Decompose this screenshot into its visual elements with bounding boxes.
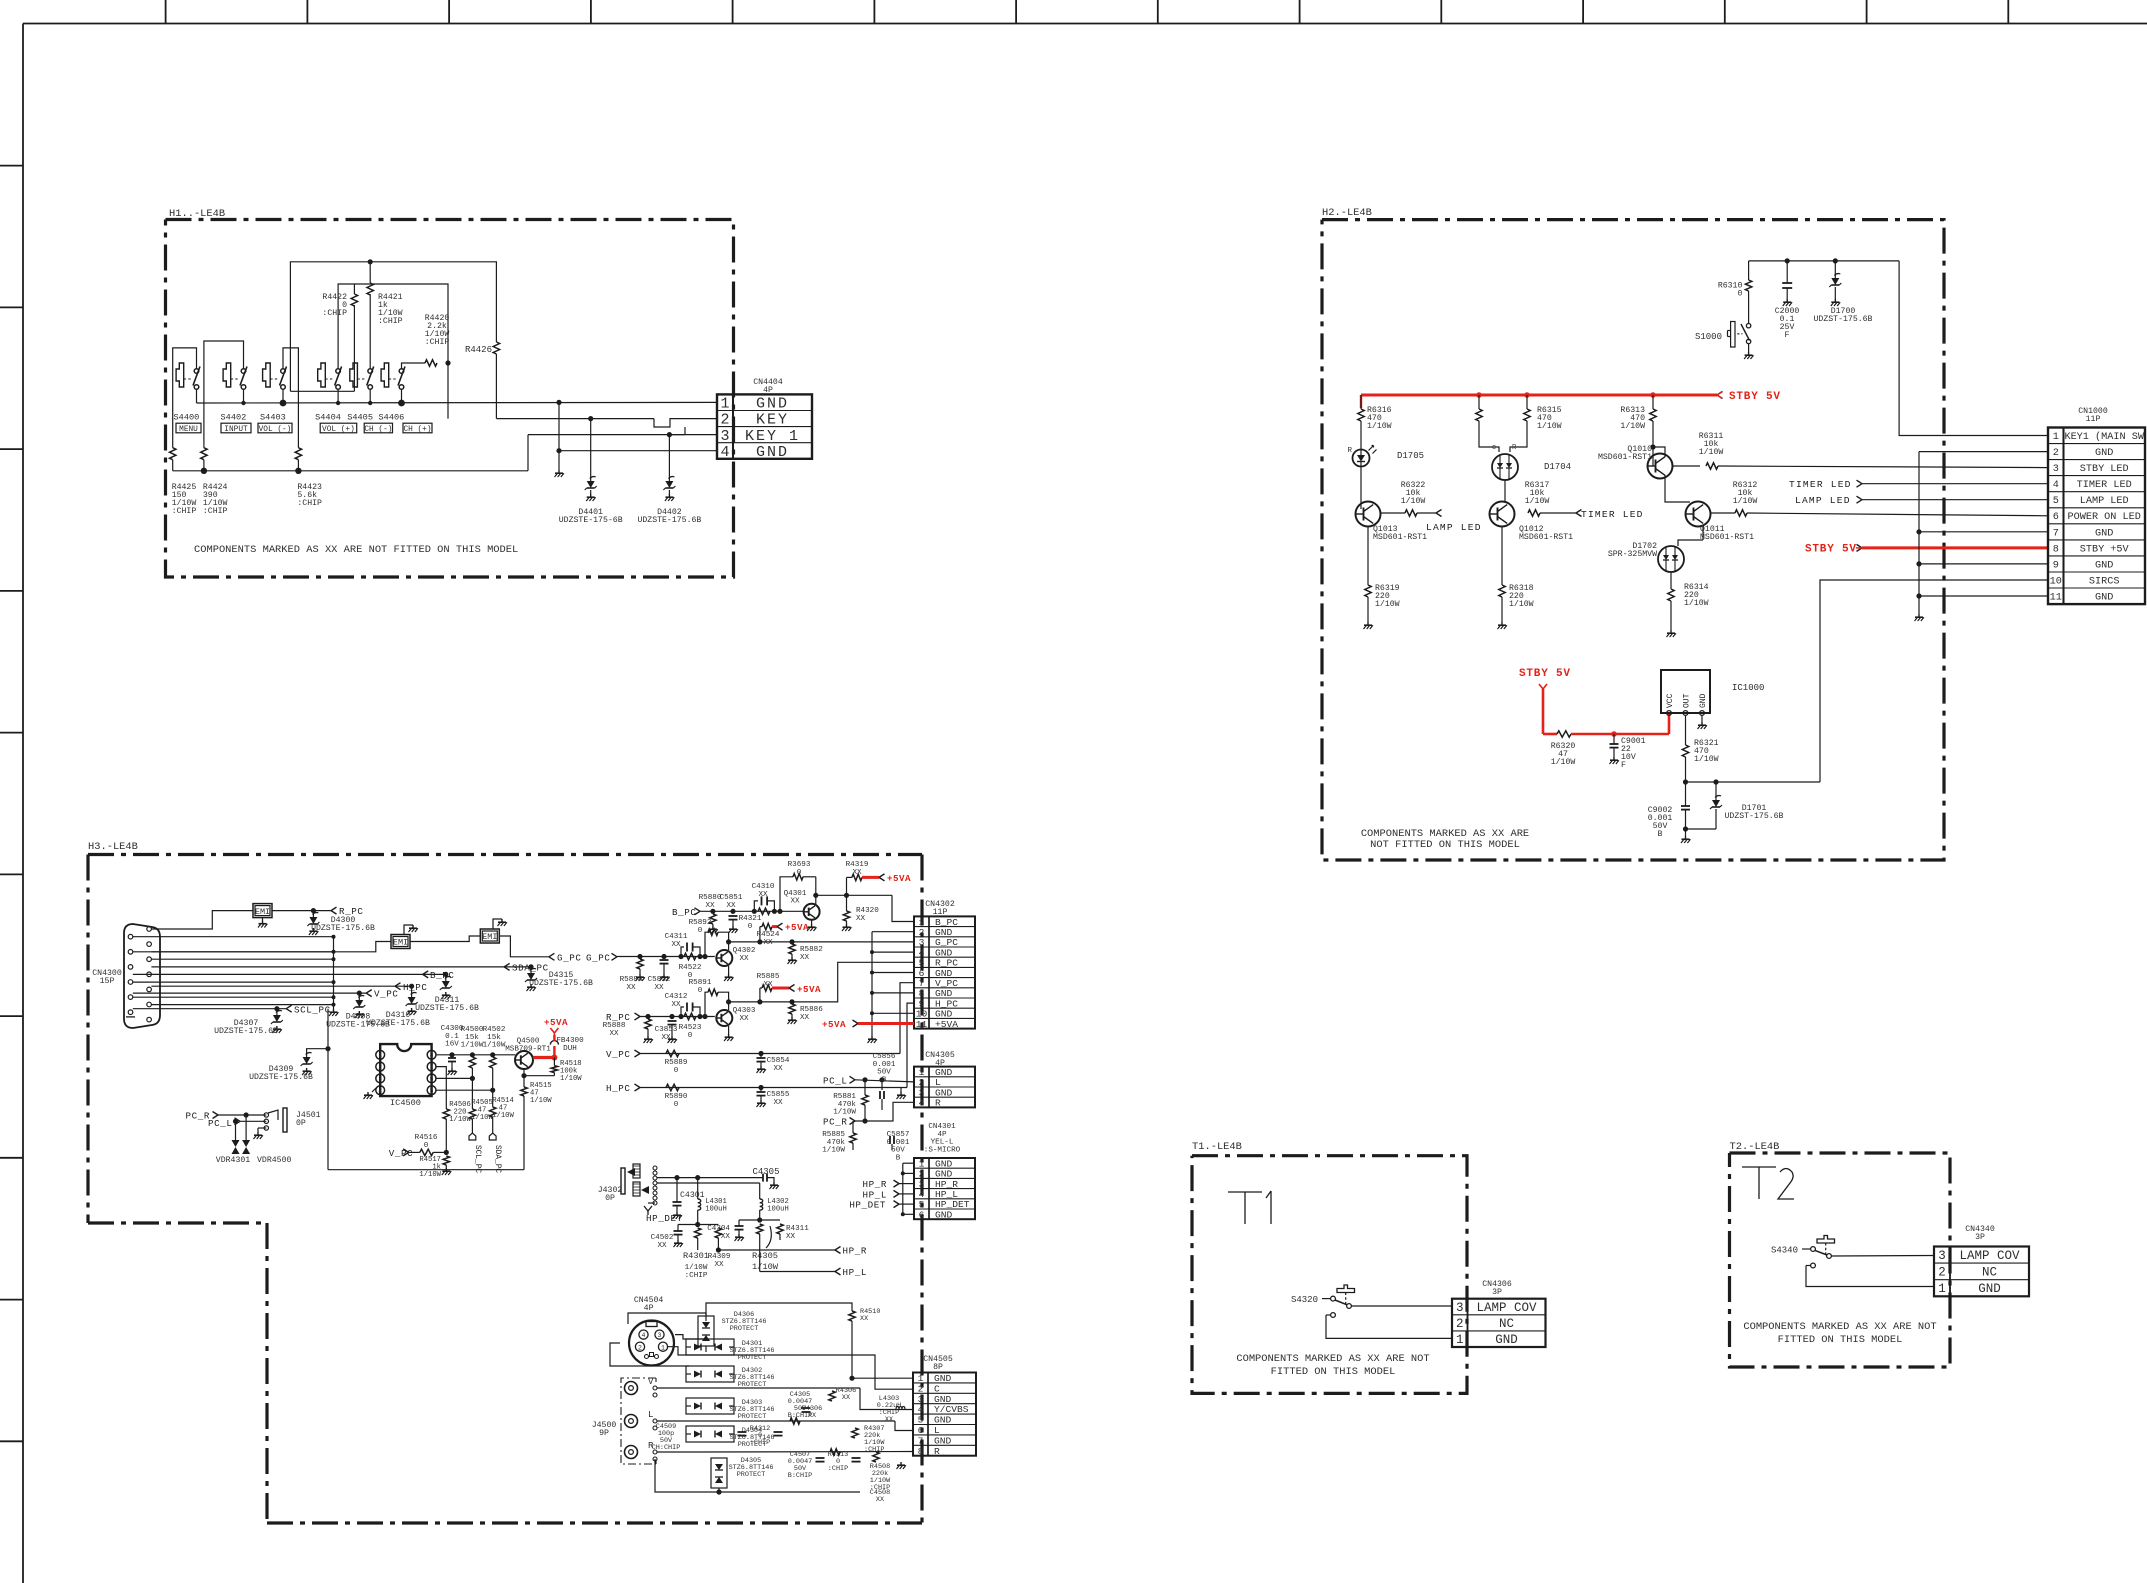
svg-text:R4426: R4426	[465, 345, 492, 355]
svg-text:15k: 15k	[487, 1034, 501, 1042]
svg-text:1/10W: 1/10W	[560, 1075, 582, 1083]
svg-text:B: B	[896, 1154, 901, 1162]
svg-text:3P: 3P	[1975, 1233, 1985, 1242]
svg-text:GND: GND	[756, 396, 789, 413]
svg-text:XX: XX	[786, 1233, 796, 1241]
svg-text:TIMER LED: TIMER LED	[1581, 509, 1644, 520]
svg-text:XX: XX	[739, 1015, 749, 1023]
svg-text:GND: GND	[2095, 528, 2113, 539]
svg-text:UDZSTE-175.6B: UDZSTE-175.6B	[326, 1021, 390, 1030]
svg-text:1/10W: 1/10W	[471, 1114, 493, 1122]
svg-text:B: B	[1658, 830, 1663, 839]
svg-text:XX: XX	[790, 898, 800, 906]
svg-text:L: L	[934, 1425, 940, 1436]
svg-text:LAMP LED: LAMP LED	[2080, 496, 2129, 507]
svg-text:V: V	[648, 1377, 654, 1387]
svg-text:S4400: S4400	[174, 413, 200, 423]
svg-text:1/10W: 1/10W	[1684, 598, 1709, 608]
svg-text:GND: GND	[934, 1435, 952, 1446]
svg-text:Q4302: Q4302	[733, 947, 756, 955]
svg-text:XX: XX	[726, 902, 736, 910]
svg-text:GND: GND	[934, 1415, 952, 1426]
svg-text:100uH: 100uH	[767, 1205, 789, 1213]
svg-text:CH:CHIP: CH:CHIP	[652, 1444, 681, 1452]
svg-text:KEY1 (MAIN SW: KEY1 (MAIN SW	[2064, 431, 2144, 443]
svg-text:R4524: R4524	[757, 931, 780, 939]
svg-text:VOL (+): VOL (+)	[322, 426, 355, 434]
svg-text:4: 4	[720, 444, 729, 461]
svg-text:PROTECT: PROTECT	[738, 1413, 767, 1421]
svg-text:R4309: R4309	[708, 1253, 731, 1261]
svg-text:1/10W: 1/10W	[492, 1112, 514, 1120]
svg-text:1/10W: 1/10W	[419, 1171, 441, 1179]
svg-text:R5890: R5890	[665, 1093, 688, 1101]
svg-text:UDZSTE-175.6B: UDZSTE-175.6B	[214, 1027, 278, 1036]
svg-text:FB4300: FB4300	[556, 1037, 584, 1045]
svg-text:L: L	[648, 1410, 653, 1420]
svg-text:C4310: C4310	[752, 883, 775, 891]
svg-text:VOL (-): VOL (-)	[259, 426, 292, 434]
svg-text:R5889: R5889	[665, 1059, 688, 1067]
svg-text:H2.-LE4B: H2.-LE4B	[1322, 207, 1372, 219]
svg-text:R5886: R5886	[800, 1006, 823, 1014]
svg-text:PC_R: PC_R	[823, 1117, 847, 1128]
svg-text::CHIP: :CHIP	[685, 1272, 708, 1280]
svg-text:1/10W: 1/10W	[833, 1109, 856, 1117]
svg-text:C4311: C4311	[665, 933, 688, 941]
svg-text:XX: XX	[800, 954, 810, 962]
svg-text:R4305: R4305	[752, 1251, 778, 1261]
svg-text:T2.-LE4B: T2.-LE4B	[1730, 1141, 1780, 1153]
svg-text:XX: XX	[654, 984, 664, 992]
svg-text:MSD601-RST1: MSD601-RST1	[1598, 453, 1652, 462]
svg-text::CHIP: :CHIP	[864, 1446, 884, 1454]
svg-text:S4402: S4402	[221, 413, 247, 423]
svg-text:XX: XX	[876, 1496, 884, 1504]
svg-text:GND: GND	[934, 1394, 952, 1405]
svg-text:S1000: S1000	[1695, 332, 1722, 342]
svg-text:UDZSTE-175.6B: UDZSTE-175.6B	[415, 1004, 479, 1013]
svg-text:COMPONENTS MARKED AS XX ARE NO: COMPONENTS MARKED AS XX ARE NOT	[1743, 1321, 1936, 1333]
svg-text:VDR4301: VDR4301	[216, 1156, 250, 1165]
svg-text:4P: 4P	[644, 1304, 654, 1313]
svg-text:S4406: S4406	[379, 413, 405, 423]
svg-text:3: 3	[1938, 1249, 1946, 1263]
svg-text:6: 6	[918, 1425, 924, 1436]
svg-text:B_PC: B_PC	[430, 970, 454, 981]
svg-text:XX: XX	[773, 1099, 783, 1107]
svg-text:3: 3	[918, 1394, 924, 1405]
svg-text:XX: XX	[671, 1001, 681, 1009]
svg-text:5: 5	[2053, 496, 2059, 507]
svg-text:R5888: R5888	[603, 1022, 626, 1030]
svg-text:STBY 5V: STBY 5V	[1729, 391, 1781, 403]
svg-text:H3.-LE4B: H3.-LE4B	[88, 841, 138, 853]
svg-text:R5885: R5885	[822, 1131, 845, 1139]
svg-text:C4305: C4305	[752, 1167, 779, 1177]
svg-text:S4405: S4405	[347, 413, 373, 423]
svg-text:15P: 15P	[100, 977, 115, 986]
svg-text:2: 2	[378, 1064, 382, 1071]
svg-text:C: C	[934, 1383, 940, 1394]
svg-text:+5VA: +5VA	[935, 1019, 958, 1030]
svg-text:B:CHIP: B:CHIP	[788, 1472, 812, 1480]
svg-text:7: 7	[918, 1435, 924, 1446]
svg-text:R3693: R3693	[788, 861, 811, 869]
svg-text::S-MICRO: :S-MICRO	[924, 1146, 961, 1154]
svg-text:LAMP COV: LAMP COV	[1959, 1249, 2020, 1263]
svg-text:+5VA: +5VA	[887, 873, 911, 884]
svg-text:XX: XX	[714, 1261, 724, 1269]
svg-text:PROTECT: PROTECT	[730, 1325, 759, 1333]
svg-text:1: 1	[378, 1052, 382, 1059]
svg-text::CHIP: :CHIP	[172, 507, 197, 516]
svg-text:XX: XX	[739, 955, 749, 963]
svg-text:2: 2	[638, 1344, 642, 1351]
svg-text:R5880: R5880	[699, 894, 722, 902]
svg-text:1: 1	[1456, 1333, 1464, 1347]
svg-text:G_PC: G_PC	[586, 952, 610, 963]
svg-text:XX: XX	[842, 1394, 850, 1402]
svg-text:8: 8	[918, 1446, 924, 1457]
svg-text:GND: GND	[2095, 448, 2113, 459]
svg-text:3P: 3P	[1492, 1288, 1502, 1297]
svg-text:F: F	[1785, 331, 1790, 340]
svg-text:NC: NC	[1499, 1317, 1514, 1331]
svg-text:GND: GND	[1699, 693, 1708, 708]
svg-text:1/10W: 1/10W	[461, 1042, 484, 1050]
svg-text:1: 1	[661, 1344, 665, 1351]
svg-text::CHIP: :CHIP	[322, 309, 347, 318]
svg-text:CH (-): CH (-)	[364, 426, 392, 434]
svg-text:MENU: MENU	[179, 426, 198, 434]
svg-text:XX: XX	[626, 984, 636, 992]
svg-text:LAMP LED: LAMP LED	[1426, 522, 1482, 533]
svg-text:8: 8	[2053, 544, 2059, 555]
svg-text:XX: XX	[763, 981, 773, 989]
svg-text:0.001: 0.001	[887, 1139, 910, 1147]
svg-text:R4502: R4502	[483, 1026, 506, 1034]
svg-text::CHIP: :CHIP	[828, 1465, 848, 1473]
svg-text:V_PC: V_PC	[606, 1049, 630, 1060]
svg-text:C5855: C5855	[767, 1091, 790, 1099]
svg-text:0.001: 0.001	[873, 1061, 896, 1069]
svg-text:470k: 470k	[827, 1139, 846, 1147]
svg-text:STBY LED: STBY LED	[2080, 464, 2129, 475]
svg-text:COMPONENTS MARKED AS XX ARE NO: COMPONENTS MARKED AS XX ARE NOT	[1236, 1353, 1429, 1365]
svg-text:POWER ON LED: POWER ON LED	[2068, 512, 2141, 523]
svg-text::CHIP: :CHIP	[425, 338, 450, 347]
svg-text:SPR-325MVW: SPR-325MVW	[1608, 550, 1657, 559]
svg-text:R4319: R4319	[846, 861, 869, 869]
svg-text:EMI: EMI	[482, 932, 497, 942]
svg-text:XX: XX	[609, 1030, 619, 1038]
svg-text:D1705: D1705	[1397, 451, 1424, 461]
svg-text:XX: XX	[705, 902, 715, 910]
svg-text:D1704: D1704	[1544, 462, 1571, 472]
svg-text:COMPONENTS MARKED AS XX ARE NO: COMPONENTS MARKED AS XX ARE NOT FITTED O…	[194, 544, 518, 556]
svg-text:C5854: C5854	[767, 1057, 790, 1065]
svg-text:R4516: R4516	[415, 1134, 438, 1142]
svg-text:INPUT: INPUT	[224, 426, 248, 434]
svg-text:1/10W: 1/10W	[1537, 421, 1562, 431]
svg-text:1: 1	[918, 1373, 924, 1384]
svg-text:XX: XX	[758, 891, 768, 899]
svg-text:1: 1	[1938, 1282, 1946, 1296]
svg-text:C4304: C4304	[707, 1225, 730, 1233]
svg-text:UDZST-175.6B: UDZST-175.6B	[1814, 315, 1873, 324]
svg-text:50V: 50V	[891, 1147, 905, 1155]
svg-text:4P: 4P	[937, 1131, 947, 1139]
svg-text:SCL_PC: SCL_PC	[294, 1004, 331, 1015]
svg-text:R5891: R5891	[689, 979, 712, 987]
svg-text:R4522: R4522	[679, 964, 702, 972]
svg-text:UDZSTE-175.6B: UDZSTE-175.6B	[311, 924, 375, 933]
svg-text:R4320: R4320	[856, 907, 879, 915]
svg-text:1/10W: 1/10W	[1733, 496, 1758, 506]
svg-text:50V: 50V	[877, 1069, 891, 1077]
svg-text:GND: GND	[2095, 593, 2113, 604]
svg-text:G_PC: G_PC	[557, 952, 581, 963]
svg-text:+5VA: +5VA	[785, 922, 809, 933]
svg-text:8: 8	[430, 1052, 434, 1059]
svg-text:1: 1	[720, 396, 729, 413]
svg-text:9P: 9P	[599, 1429, 609, 1438]
svg-text:11P: 11P	[2086, 415, 2101, 424]
svg-text:1/10W: 1/10W	[1525, 496, 1550, 506]
svg-text:EMI: EMI	[255, 907, 270, 917]
svg-text:V_PC: V_PC	[389, 1148, 413, 1159]
svg-text:+5VA: +5VA	[797, 984, 821, 995]
svg-text:C4312: C4312	[665, 993, 688, 1001]
svg-text:0: 0	[688, 1032, 693, 1040]
svg-text:STBY 5V: STBY 5V	[1805, 544, 1857, 556]
svg-text:1/10W: 1/10W	[1694, 754, 1719, 764]
svg-text:R4321: R4321	[739, 915, 762, 923]
svg-text:3: 3	[1456, 1301, 1464, 1315]
svg-text:0: 0	[674, 1101, 679, 1109]
svg-text:3: 3	[720, 428, 729, 445]
svg-text::CHIP: :CHIP	[378, 317, 403, 326]
svg-text:PC_L: PC_L	[823, 1075, 847, 1086]
svg-text:0: 0	[1737, 290, 1742, 299]
svg-text:CN4301: CN4301	[928, 1123, 956, 1131]
svg-text:TIMER LED: TIMER LED	[1789, 479, 1852, 490]
svg-text:4: 4	[378, 1087, 382, 1094]
svg-text:KEY 1: KEY 1	[745, 428, 800, 445]
svg-text:Y/CVBS: Y/CVBS	[934, 1404, 969, 1415]
svg-text:GND: GND	[1978, 1282, 2001, 1296]
svg-text:1/10W: 1/10W	[1509, 599, 1534, 609]
svg-text:STBY +5V: STBY +5V	[2080, 544, 2130, 555]
svg-text:0: 0	[674, 1067, 679, 1075]
svg-text:1/10W: 1/10W	[483, 1042, 506, 1050]
svg-text:NOT FITTED ON THIS MODEL: NOT FITTED ON THIS MODEL	[1370, 839, 1520, 851]
svg-text:2: 2	[720, 412, 729, 429]
svg-text:OUT: OUT	[1683, 693, 1692, 708]
svg-text:R: R	[935, 1098, 941, 1109]
svg-text:XX: XX	[852, 869, 862, 877]
svg-text:XX: XX	[860, 1315, 868, 1323]
svg-text:XX: XX	[763, 939, 773, 947]
svg-text:0P: 0P	[296, 1119, 306, 1128]
svg-text:0: 0	[698, 927, 703, 935]
svg-text:XX: XX	[800, 1014, 810, 1022]
svg-text:MSD601-RST1: MSD601-RST1	[1519, 533, 1573, 542]
svg-text:R: R	[1347, 447, 1352, 455]
svg-text:TIMER LED: TIMER LED	[2077, 480, 2132, 491]
svg-text:R: R	[934, 1446, 940, 1457]
svg-text:HP_L: HP_L	[843, 1267, 867, 1278]
svg-text:MSB709-RT1: MSB709-RT1	[505, 1045, 551, 1053]
svg-text:11: 11	[2050, 593, 2062, 604]
svg-text:0: 0	[748, 923, 753, 931]
svg-text:GND: GND	[935, 1209, 953, 1220]
svg-text:1/10W: 1/10W	[752, 1262, 779, 1272]
svg-text:C5857: C5857	[887, 1131, 910, 1139]
svg-text:4: 4	[2053, 480, 2059, 491]
svg-text:0.1: 0.1	[445, 1033, 459, 1041]
svg-text:XX: XX	[671, 941, 681, 949]
svg-text:MSD601-RST1: MSD601-RST1	[1373, 533, 1427, 542]
svg-text:3: 3	[378, 1076, 382, 1083]
svg-text:H_PC: H_PC	[606, 1083, 630, 1094]
svg-text:MSD601-RST1: MSD601-RST1	[1700, 533, 1754, 542]
svg-text:XX: XX	[657, 1242, 667, 1250]
svg-text:LAMP COV: LAMP COV	[1476, 1301, 1537, 1315]
svg-text:GND: GND	[1495, 1333, 1518, 1347]
svg-text:0: 0	[797, 869, 802, 877]
svg-text:S4320: S4320	[1291, 1295, 1318, 1305]
svg-text:LAMP LED: LAMP LED	[1795, 495, 1851, 506]
svg-text:PC_R: PC_R	[186, 1111, 210, 1122]
svg-text:6: 6	[430, 1076, 434, 1083]
svg-text:XX: XX	[885, 1416, 893, 1424]
svg-text:16V: 16V	[445, 1041, 459, 1049]
svg-text:C5851: C5851	[720, 894, 743, 902]
svg-text:2: 2	[918, 1383, 924, 1394]
svg-text:9: 9	[2053, 560, 2059, 571]
svg-text:GND: GND	[934, 1373, 952, 1384]
svg-text:0P: 0P	[605, 1194, 615, 1203]
svg-text:R5892: R5892	[689, 919, 712, 927]
svg-text:1/10W: 1/10W	[685, 1264, 708, 1272]
svg-text:6: 6	[2053, 512, 2059, 523]
svg-text:C5856: C5856	[873, 1053, 896, 1061]
svg-text:VCC: VCC	[1666, 693, 1675, 708]
svg-text:XX: XX	[773, 1065, 783, 1073]
svg-text:6: 6	[919, 1209, 925, 1220]
svg-text:1: 1	[2053, 432, 2059, 443]
svg-text:1/10W: 1/10W	[530, 1097, 552, 1105]
svg-text:5: 5	[430, 1087, 434, 1094]
svg-text:XX: XX	[721, 1233, 731, 1241]
svg-text:S4403: S4403	[260, 413, 286, 423]
svg-text:2: 2	[1456, 1317, 1464, 1331]
svg-text:1/10W: 1/10W	[1620, 421, 1645, 431]
svg-text:UDZSTE-175-6B: UDZSTE-175-6B	[559, 516, 623, 525]
svg-text:4: 4	[918, 1404, 924, 1415]
svg-text:2: 2	[2053, 448, 2059, 459]
svg-text:10: 10	[2050, 576, 2062, 587]
svg-text:1/10W: 1/10W	[1699, 447, 1724, 457]
svg-text:R4311: R4311	[786, 1225, 809, 1233]
svg-text:STBY 5V: STBY 5V	[1519, 668, 1571, 680]
svg-text:1/10W: 1/10W	[1401, 496, 1426, 506]
svg-text:R4523: R4523	[679, 1024, 702, 1032]
svg-text:FITTED ON THIS MODEL: FITTED ON THIS MODEL	[1778, 1334, 1903, 1346]
svg-text:7: 7	[2053, 528, 2059, 539]
svg-text:+5VA: +5VA	[822, 1019, 846, 1030]
svg-text:PROTECT: PROTECT	[737, 1471, 766, 1479]
svg-text:B: B	[882, 1076, 887, 1084]
svg-text:DUH: DUH	[563, 1045, 577, 1053]
svg-text:C5852: C5852	[648, 976, 671, 984]
svg-text:15k: 15k	[465, 1034, 479, 1042]
svg-text:1/10W: 1/10W	[1367, 421, 1392, 431]
svg-text:F: F	[1621, 761, 1626, 770]
svg-text:XX: XX	[661, 1034, 671, 1042]
svg-text:YEL-L: YEL-L	[931, 1139, 954, 1147]
svg-text:HP_DET: HP_DET	[849, 1200, 886, 1211]
svg-text:IC4500: IC4500	[390, 1098, 421, 1108]
svg-text:4: 4	[919, 1098, 925, 1109]
svg-text:R5881: R5881	[833, 1093, 856, 1101]
svg-text:IC1000: IC1000	[1732, 683, 1764, 693]
svg-text:FITTED ON THIS MODEL: FITTED ON THIS MODEL	[1271, 1366, 1396, 1378]
svg-text:0: 0	[698, 987, 703, 995]
svg-text:R4301: R4301	[683, 1251, 709, 1261]
svg-text:H_PC: H_PC	[403, 982, 427, 993]
svg-text:1/10W: 1/10W	[1375, 599, 1400, 609]
svg-text:C3853: C3853	[655, 1026, 678, 1034]
svg-text:NC: NC	[1982, 1266, 1997, 1280]
svg-text:1/10W: 1/10W	[449, 1116, 471, 1124]
svg-text:8P: 8P	[933, 1363, 943, 1372]
svg-text:+5VA: +5VA	[544, 1017, 568, 1028]
svg-text:Q4303: Q4303	[733, 1007, 756, 1015]
svg-text:Q4500: Q4500	[517, 1038, 540, 1046]
svg-text:0: 0	[424, 1142, 429, 1150]
svg-text:1/10W: 1/10W	[1551, 757, 1576, 767]
svg-text:R5885: R5885	[757, 973, 780, 981]
svg-text:2: 2	[1938, 1266, 1946, 1280]
svg-text:GND: GND	[2095, 560, 2113, 571]
svg-text:V_PC: V_PC	[374, 989, 398, 1000]
svg-text:UDZST-175.6B: UDZST-175.6B	[1725, 812, 1784, 821]
svg-text:B_PC: B_PC	[672, 907, 696, 918]
svg-text:EMI: EMI	[393, 938, 408, 948]
svg-text:HP_R: HP_R	[843, 1246, 867, 1257]
svg-text:S4404: S4404	[315, 413, 341, 423]
svg-text:100uH: 100uH	[705, 1205, 727, 1213]
svg-text:3: 3	[2053, 464, 2059, 475]
svg-text:470k: 470k	[838, 1101, 857, 1109]
svg-text:C4301: C4301	[680, 1191, 705, 1200]
svg-text:UDZSTE-175.6B: UDZSTE-175.6B	[529, 979, 593, 988]
svg-text:T1.-LE4B: T1.-LE4B	[1192, 1141, 1242, 1153]
svg-text:XX: XX	[856, 915, 866, 923]
svg-text:5: 5	[918, 1415, 924, 1426]
svg-text:7: 7	[430, 1064, 434, 1071]
svg-text::CHIP: :CHIP	[750, 1439, 770, 1447]
svg-text:11: 11	[916, 1019, 928, 1030]
svg-text::CHIP: :CHIP	[203, 507, 228, 516]
svg-text:R4500: R4500	[461, 1026, 484, 1034]
svg-text:4: 4	[642, 1332, 646, 1339]
svg-text::CHIP: :CHIP	[297, 499, 322, 508]
svg-text:UDZSTE-175.6B: UDZSTE-175.6B	[249, 1073, 313, 1082]
